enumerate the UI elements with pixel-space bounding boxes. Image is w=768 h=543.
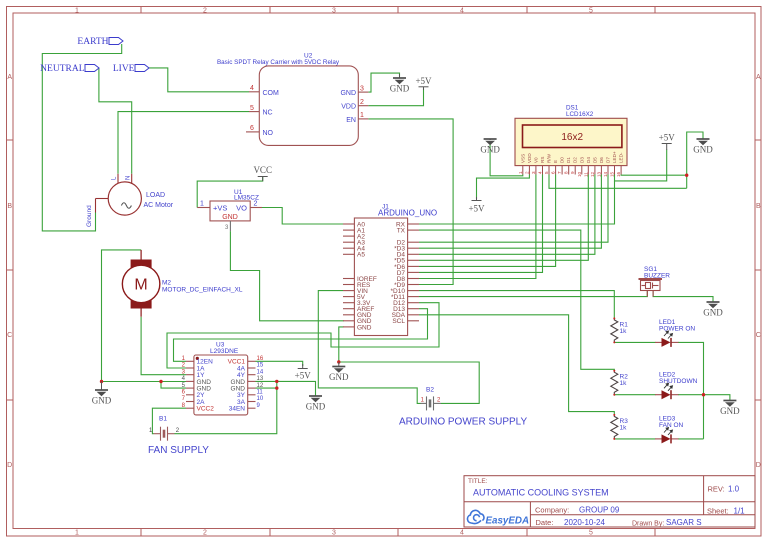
svg-text:Drawn By:: Drawn By: xyxy=(632,520,664,527)
svg-text:NO: NO xyxy=(263,130,274,137)
svg-text:C: C xyxy=(756,332,761,339)
svg-text:Sheet:: Sheet: xyxy=(707,506,729,515)
wire EARTH to AC motor ground xyxy=(42,44,121,231)
svg-text:Date:: Date: xyxy=(536,518,554,527)
svg-text:EasyEDA: EasyEDA xyxy=(486,516,530,527)
ground flag below arduino GND junction xyxy=(329,362,349,382)
svg-text:NEUTRAL: NEUTRAL xyxy=(40,64,85,74)
motor driver U3 L293DNE xyxy=(182,342,264,415)
svg-text:+5V: +5V xyxy=(659,133,676,143)
svg-text:2: 2 xyxy=(524,171,529,174)
wire R1 to LED1 anode xyxy=(614,341,655,343)
svg-text:EN: EN xyxy=(346,117,356,124)
svg-text:12: 12 xyxy=(590,171,595,177)
svg-text:5: 5 xyxy=(589,530,593,537)
svg-text:SCL: SCL xyxy=(392,318,405,325)
svg-text:COM: COM xyxy=(263,90,280,97)
svg-text:D4: D4 xyxy=(586,157,591,163)
wire ground flag chain right of LCD xyxy=(687,132,703,188)
svg-text:34EN: 34EN xyxy=(229,406,246,413)
svg-text:3: 3 xyxy=(360,85,364,92)
ground flag left of LCD xyxy=(480,139,500,155)
svg-text:ARDUINO_UNO: ARDUINO_UNO xyxy=(378,209,437,218)
AC motor LOAD xyxy=(86,174,174,227)
net flag EARTH xyxy=(77,37,123,47)
svg-text:1.0: 1.0 xyxy=(728,485,740,494)
svg-text:11: 11 xyxy=(257,390,264,396)
svg-text:GND: GND xyxy=(480,145,500,155)
resistor R1 1k xyxy=(611,317,628,343)
wire ground bus to L293 GND pin5 xyxy=(161,382,186,389)
wire relay EN to arduino D9 xyxy=(368,119,453,285)
arduino J1 ARDUINO_UNO xyxy=(343,204,437,336)
buzzer SG1 xyxy=(639,266,671,297)
svg-text:1: 1 xyxy=(360,112,364,119)
wire AC motor pin L to relay NC xyxy=(118,112,249,174)
net flag NEUTRAL xyxy=(40,64,99,74)
wire battery B2 pin1 to arduino VIN xyxy=(318,291,420,404)
svg-text:14: 14 xyxy=(603,171,608,177)
wire arduino GND to ground flag junction xyxy=(339,327,344,362)
power flag +5V near relay xyxy=(415,76,432,90)
svg-text:B: B xyxy=(756,203,761,210)
svg-text:FAN ON: FAN ON xyxy=(659,422,684,429)
svg-text:D: D xyxy=(7,462,12,469)
power flag +5V inverted near L293 VCC1 xyxy=(295,364,312,381)
wire LED2 cathode to column xyxy=(678,394,704,396)
svg-text:GND: GND xyxy=(329,372,349,382)
wire L293 GND bus down to battery B1 minus xyxy=(175,381,277,433)
svg-text:B1: B1 xyxy=(159,416,167,423)
svg-text:4: 4 xyxy=(460,8,464,15)
svg-text:SAGAR S: SAGAR S xyxy=(666,518,702,527)
svg-text:3: 3 xyxy=(332,530,336,537)
wire LCD V0 to arduino D8 xyxy=(419,175,536,279)
svg-text:3: 3 xyxy=(531,171,536,174)
wire LM35 VO to arduino A0 xyxy=(262,208,343,225)
LCD display DS1 LCD16X2 xyxy=(515,105,627,178)
svg-text:2: 2 xyxy=(360,99,364,106)
ground flag near relay xyxy=(390,74,410,94)
svg-text:R/W: R/W xyxy=(547,153,552,163)
LED2 SHUTDOWN xyxy=(655,372,698,400)
DC motor M2 MOTOR_DC_EINFACH_XL xyxy=(122,250,242,317)
wire buzzer to ground flag xyxy=(653,291,713,303)
svg-text:LOAD: LOAD xyxy=(146,192,165,199)
wire relay VDD to +5V flag xyxy=(368,89,423,106)
wire arduino D13 to L293 12EN xyxy=(174,309,428,362)
svg-text:5: 5 xyxy=(250,105,254,112)
svg-text:9: 9 xyxy=(570,171,575,174)
svg-text:1: 1 xyxy=(200,201,204,208)
wire L293 VCC1 to +5V flag xyxy=(256,361,303,366)
wire LED3 cathode to column xyxy=(678,438,704,440)
svg-text:16: 16 xyxy=(257,356,264,362)
wire LCD LED- to ground junction xyxy=(621,174,687,177)
wire LCD LED+ to +5V flag xyxy=(615,150,667,181)
LED1 POWER ON xyxy=(655,319,695,347)
EasyEDA logo xyxy=(467,510,529,526)
ground flag right of LED2 xyxy=(720,401,740,417)
svg-text:L293DNE: L293DNE xyxy=(210,348,239,355)
svg-text:1k: 1k xyxy=(620,425,628,432)
svg-text:N: N xyxy=(125,176,131,180)
svg-text:RS: RS xyxy=(540,157,545,163)
svg-text:FAN SUPPLY: FAN SUPPLY xyxy=(148,445,209,456)
svg-text:A: A xyxy=(7,74,12,81)
wire relay GND pin to ground flag xyxy=(368,73,399,92)
svg-text:LED-: LED- xyxy=(619,152,624,163)
wire LM35 GND to arduino GND xyxy=(230,231,344,321)
svg-text:+5V: +5V xyxy=(468,204,485,214)
svg-text:D2: D2 xyxy=(573,157,578,163)
resistor R2 1k xyxy=(611,370,628,396)
svg-text:4: 4 xyxy=(250,85,254,92)
svg-text:AC Motor: AC Motor xyxy=(144,202,174,209)
svg-text:4: 4 xyxy=(538,171,543,174)
power flag VCC above LM35 xyxy=(253,165,272,181)
svg-text:TITLE:: TITLE: xyxy=(468,478,488,485)
svg-text:4: 4 xyxy=(460,530,464,537)
svg-text:MOTOR_DC_EINFACH_XL: MOTOR_DC_EINFACH_XL xyxy=(162,287,243,294)
svg-text:B: B xyxy=(7,203,12,210)
svg-text:GROUP 09: GROUP 09 xyxy=(579,505,620,514)
wire arduino SDA to resistor R3 xyxy=(419,315,614,415)
ground flag below DC motor bus xyxy=(92,382,112,406)
svg-text:D3: D3 xyxy=(579,157,584,163)
svg-text:11: 11 xyxy=(583,172,588,177)
svg-text:16: 16 xyxy=(616,171,621,177)
svg-text:2: 2 xyxy=(203,530,207,537)
wire arduino D12 to L293 1A xyxy=(167,303,439,368)
svg-text:2020-10-24: 2020-10-24 xyxy=(564,518,605,527)
svg-text:REV:: REV: xyxy=(708,485,725,494)
svg-text:8: 8 xyxy=(564,171,569,174)
svg-text:Ground: Ground xyxy=(86,205,93,227)
wire LED2 junction to ground flag xyxy=(704,395,730,401)
svg-text:GND: GND xyxy=(703,308,723,318)
svg-text:M2: M2 xyxy=(162,280,171,287)
svg-text:D: D xyxy=(756,462,761,469)
svg-text:V0: V0 xyxy=(533,157,538,163)
svg-text:B2: B2 xyxy=(426,387,434,394)
svg-text:15: 15 xyxy=(610,171,615,177)
svg-text:A5: A5 xyxy=(357,252,365,259)
svg-text:SHUTDOWN: SHUTDOWN xyxy=(659,378,698,385)
wire arduino TX to resistor R2 xyxy=(419,230,614,371)
svg-text:VDD: VDD xyxy=(341,104,356,111)
wire LCD RS to arduino D7 xyxy=(419,175,543,273)
battery B1 xyxy=(148,416,209,457)
svg-text:A: A xyxy=(756,74,761,81)
power flag +5V right of LCD xyxy=(659,133,676,151)
svg-text:6: 6 xyxy=(250,125,254,132)
svg-text:6: 6 xyxy=(551,171,556,174)
svg-text:D5: D5 xyxy=(592,157,597,163)
wire battery B1 plus to L293 VCC2 xyxy=(152,408,186,434)
wire arduino D11 to buzzer xyxy=(419,291,647,297)
wire DC motor bottom to L293 1Y xyxy=(141,317,186,375)
svg-text:LIVE: LIVE xyxy=(113,64,135,74)
relay U2 Basic SPDT Relay Carrier xyxy=(217,53,368,146)
svg-text:2: 2 xyxy=(254,201,258,208)
svg-text:+VS: +VS xyxy=(213,204,227,213)
svg-text:Basic SPDT Relay Carrier with: Basic SPDT Relay Carrier with 5VDC Relay xyxy=(217,59,340,66)
wire LCD R/W to ground net xyxy=(549,175,687,189)
svg-text:ARDUINO POWER SUPPLY: ARDUINO POWER SUPPLY xyxy=(399,417,527,428)
svg-text:16x2: 16x2 xyxy=(561,132,583,143)
svg-text:GND: GND xyxy=(357,324,372,331)
temperature sensor U1 LM35CZ xyxy=(197,189,262,231)
title block xyxy=(464,476,755,528)
wire L293 GND pin12 to bus xyxy=(256,387,277,389)
svg-text:12: 12 xyxy=(257,383,264,389)
svg-text:D7: D7 xyxy=(606,157,611,163)
svg-text:+5V: +5V xyxy=(415,76,432,86)
wire arduino D10 to resistor R1 xyxy=(419,291,614,319)
svg-text:+5V: +5V xyxy=(295,371,312,381)
wire LCD E to arduino D6 xyxy=(419,175,556,267)
svg-text:Company:: Company: xyxy=(535,505,569,514)
svg-text:1: 1 xyxy=(518,171,523,174)
svg-text:D6: D6 xyxy=(599,157,604,163)
svg-text:14: 14 xyxy=(257,369,264,375)
svg-text:LCD16X2: LCD16X2 xyxy=(566,111,594,118)
svg-text:1: 1 xyxy=(75,8,79,15)
power flag +5V inverted near arduino top xyxy=(468,197,485,214)
wire arduino D4 to LCD D5 xyxy=(419,175,595,255)
svg-text:NC: NC xyxy=(263,110,273,117)
svg-text:1/1: 1/1 xyxy=(734,506,746,515)
wire LCD VDD to +5V flag xyxy=(477,175,530,200)
wire ground bus to L293 GND pin4 xyxy=(102,381,187,383)
wire arduino RX to LED+ net xyxy=(419,181,615,224)
svg-text:2: 2 xyxy=(203,8,207,15)
svg-text:10: 10 xyxy=(257,396,264,402)
svg-text:1: 1 xyxy=(75,530,79,537)
ground flag right of buzzer xyxy=(703,302,723,318)
svg-text:5: 5 xyxy=(544,171,549,174)
LED3 FAN ON xyxy=(655,416,684,444)
ground flag right of L293 xyxy=(306,396,326,412)
svg-text:VSS: VSS xyxy=(520,154,525,163)
wire junction to battery B2 pin2 xyxy=(339,362,479,403)
wire NEUTRAL to AC motor pin N xyxy=(99,69,132,174)
svg-text:M: M xyxy=(134,277,147,294)
svg-text:E: E xyxy=(553,160,558,163)
battery B2 xyxy=(399,387,527,428)
resistor R3 1k xyxy=(611,414,628,440)
wire arduino D2 to LCD D7 xyxy=(419,175,608,243)
wire LIVE to relay COM xyxy=(149,68,249,92)
svg-text:TX: TX xyxy=(397,228,406,235)
svg-text:GND: GND xyxy=(390,84,410,94)
wire L293 GND pin13 to ground flag xyxy=(256,381,316,396)
svg-text:3: 3 xyxy=(332,8,336,15)
svg-text:13: 13 xyxy=(257,376,264,382)
svg-text:GND: GND xyxy=(340,90,356,97)
svg-text:AUTOMATIC COOLING SYSTEM: AUTOMATIC COOLING SYSTEM xyxy=(473,488,609,498)
svg-text:5: 5 xyxy=(589,8,593,15)
wire arduino D3 to LCD D6 xyxy=(419,175,601,249)
svg-text:VCC: VCC xyxy=(253,165,272,175)
svg-text:15: 15 xyxy=(257,363,264,369)
wire arduino D5 to LCD D4 xyxy=(419,175,588,261)
wire LCD VSS to ground flag xyxy=(490,144,523,176)
svg-text:VCC2: VCC2 xyxy=(197,406,215,413)
svg-text:GND: GND xyxy=(693,145,713,155)
net flag LIVE xyxy=(113,64,149,74)
svg-text:D1: D1 xyxy=(566,157,571,163)
wire R2 to LED2 anode xyxy=(614,394,655,396)
wire LED1 cathode to LED column xyxy=(678,342,704,439)
svg-text:LED+: LED+ xyxy=(612,151,617,163)
svg-text:VO: VO xyxy=(236,204,247,213)
svg-text:POWER ON: POWER ON xyxy=(659,326,695,333)
ground flag right of LCD xyxy=(693,139,713,155)
svg-text:13: 13 xyxy=(596,171,601,177)
svg-text:C: C xyxy=(7,332,12,339)
svg-text:7: 7 xyxy=(557,171,562,174)
svg-text:GND: GND xyxy=(222,214,238,221)
svg-text:D0: D0 xyxy=(560,157,565,163)
wire DC motor top to ground bus xyxy=(102,250,142,382)
svg-text:VDD: VDD xyxy=(527,153,532,163)
svg-text:1k: 1k xyxy=(620,380,628,387)
svg-text:GND: GND xyxy=(720,406,740,416)
svg-text:1k: 1k xyxy=(620,328,628,335)
wire VCC flag to LM35 +VS xyxy=(197,177,263,208)
svg-text:GND: GND xyxy=(306,402,326,412)
svg-text:GND: GND xyxy=(92,396,112,406)
svg-text:EARTH: EARTH xyxy=(77,37,108,47)
svg-text:10: 10 xyxy=(577,171,582,177)
wire R3 to LED3 anode xyxy=(614,438,655,440)
